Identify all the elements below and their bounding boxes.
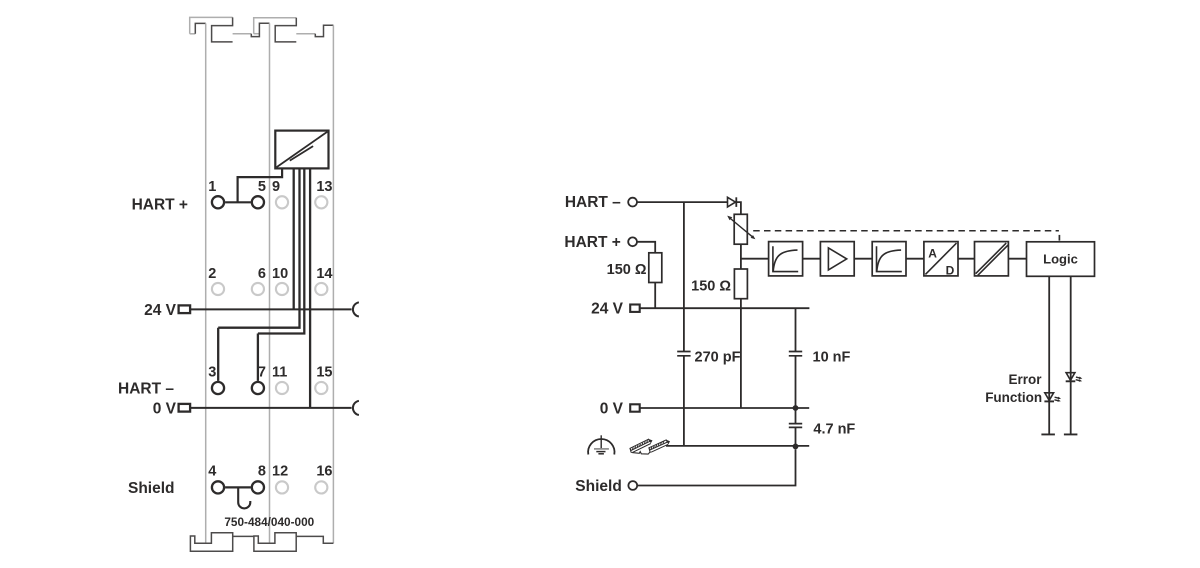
terminal 14 (unused) bbox=[315, 283, 327, 295]
svg-text:Shield: Shield bbox=[128, 480, 175, 497]
svg-text:10 nF: 10 nF bbox=[813, 349, 851, 365]
module outline: top profile tabs (gray) bbox=[190, 17, 316, 33]
connector square 0V bbox=[630, 404, 640, 411]
resistor 150 ohm (lower) bbox=[734, 269, 747, 299]
wire bbox=[803, 258, 821, 260]
terminal 2 (unused) bbox=[212, 283, 224, 295]
wire resistor to 24V rail bbox=[654, 283, 656, 309]
wire bbox=[854, 258, 872, 260]
svg-text:5: 5 bbox=[258, 179, 266, 195]
function block: A/D converter bbox=[924, 242, 958, 278]
vertical from HART- junction down to ground rail with 270 pF capacitor bbox=[683, 202, 685, 446]
svg-text:750-484/040-000: 750-484/040-000 bbox=[224, 515, 314, 529]
svg-text:4.7 nF: 4.7 nF bbox=[813, 422, 855, 438]
svg-text:15: 15 bbox=[316, 364, 332, 380]
dashed control line from burden resistor to Logic bbox=[753, 230, 1059, 232]
ground rail bbox=[666, 445, 809, 447]
terminal circle HART - bbox=[628, 198, 637, 207]
svg-text:9: 9 bbox=[272, 179, 280, 195]
svg-text:Logic: Logic bbox=[1043, 252, 1078, 267]
svg-text:12: 12 bbox=[272, 464, 288, 480]
terminal 15 (unused) bbox=[315, 382, 327, 394]
svg-text:0 V: 0 V bbox=[600, 400, 624, 417]
svg-text:14: 14 bbox=[316, 266, 332, 282]
svg-text:HART –: HART – bbox=[118, 380, 174, 397]
terminal circle Shield bbox=[628, 481, 637, 490]
svg-text:7: 7 bbox=[258, 364, 266, 380]
terminal 6 (unused) bbox=[252, 283, 264, 295]
svg-text:Function: Function bbox=[985, 390, 1042, 405]
svg-text:270 pF: 270 pF bbox=[695, 349, 741, 365]
svg-text:HART +: HART + bbox=[132, 196, 188, 213]
svg-text:Error: Error bbox=[1008, 372, 1042, 387]
terminal 3 (HART -) bbox=[212, 382, 224, 394]
terminal 9 (unused) bbox=[276, 196, 288, 208]
svg-text:150 Ω: 150 Ω bbox=[691, 279, 731, 295]
24 V feed line on module with connector square and right hook bbox=[179, 302, 359, 316]
terminal 11 (unused) bbox=[276, 382, 288, 394]
Logic box bbox=[1027, 242, 1095, 276]
terminal 7 (HART -) bbox=[252, 382, 264, 394]
svg-text:0 V: 0 V bbox=[153, 400, 177, 417]
svg-text:A: A bbox=[928, 247, 937, 261]
LED (Function, left line) bbox=[1044, 393, 1061, 402]
wire branch into first block bbox=[741, 258, 769, 260]
svg-text:Shield: Shield bbox=[575, 478, 622, 495]
DIN rail icon bbox=[630, 439, 670, 454]
terminal 1 (HART +) bbox=[212, 196, 224, 208]
resistor 150 ohm (upper) bbox=[649, 253, 662, 283]
svg-text:24 V: 24 V bbox=[591, 301, 624, 318]
capacitor 4.7 nF between 0V and ground rail bbox=[795, 408, 797, 446]
svg-text:6: 6 bbox=[258, 266, 266, 282]
svg-text:8: 8 bbox=[258, 464, 266, 480]
LED line end bars bbox=[1041, 433, 1077, 435]
svg-text:13: 13 bbox=[316, 179, 332, 195]
function block: filter 2 (curve) bbox=[872, 242, 906, 276]
function block: filter 1 (curve) bbox=[769, 242, 803, 276]
adjustable resistor (burden) bbox=[727, 214, 755, 244]
terminal 4 (Shield) bbox=[212, 481, 224, 493]
function block: amplifier bbox=[820, 242, 854, 276]
svg-text:10: 10 bbox=[272, 266, 288, 282]
LED (Error, right line) bbox=[1066, 373, 1083, 382]
svg-text:4: 4 bbox=[208, 464, 216, 480]
wire: jumper terminal 1 to 5 with riser to isolation block bbox=[225, 168, 282, 202]
terminal 13 (unused) bbox=[315, 196, 327, 208]
terminal 8 (Shield) bbox=[252, 481, 264, 493]
terminal circle HART + bbox=[628, 237, 637, 246]
diode bbox=[728, 197, 737, 207]
svg-text:11: 11 bbox=[272, 364, 287, 380]
terminal 5 (HART +) bbox=[252, 196, 264, 208]
dashed tick into logic box bbox=[1058, 235, 1060, 241]
wire shield jumper terminal 4 to 8 bbox=[225, 486, 251, 488]
terminal 10 (unused) bbox=[276, 283, 288, 295]
wire bbox=[906, 258, 924, 260]
wire shield to ground junction bbox=[637, 449, 795, 485]
24V rail bbox=[640, 307, 810, 309]
svg-text:1: 1 bbox=[208, 179, 216, 195]
svg-text:HART –: HART – bbox=[565, 194, 621, 211]
module outline: bottom profile boots (dark) bbox=[190, 533, 333, 552]
wire variable resistor to 150 ohm lower resistor bbox=[740, 244, 742, 269]
0V rail bbox=[640, 407, 810, 409]
wire isolation block to 0V rail bbox=[309, 168, 311, 408]
svg-text:150 Ω: 150 Ω bbox=[607, 262, 647, 278]
function block: isolation bbox=[975, 242, 1009, 276]
LED lines from Logic bbox=[1049, 276, 1071, 434]
terminal 16 (unused) bbox=[315, 481, 327, 493]
wire isolation block to terminal 7 bbox=[258, 168, 304, 381]
wire HART - to diode and down bbox=[637, 202, 741, 214]
svg-text:24 V: 24 V bbox=[144, 302, 177, 319]
svg-text:D: D bbox=[946, 263, 955, 277]
wire bbox=[1008, 258, 1026, 260]
wire HART + to resistor bbox=[637, 242, 655, 253]
wire isolation block to terminal 3 bbox=[218, 168, 299, 381]
shield drain stem and hook bbox=[238, 487, 250, 508]
0 V feed line on module with connector square and right hook bbox=[179, 401, 359, 415]
earth ground symbol bbox=[588, 435, 614, 454]
terminal 12 (unused) bbox=[276, 481, 288, 493]
svg-text:3: 3 bbox=[208, 364, 216, 380]
isolation transformer block on module bbox=[275, 131, 328, 169]
svg-text:2: 2 bbox=[208, 266, 216, 282]
wire lower resistor down to 0V rail bbox=[740, 299, 742, 408]
connector square 24V bbox=[630, 305, 640, 312]
wire isolation block to 24V rail bbox=[293, 168, 295, 309]
svg-text:16: 16 bbox=[316, 464, 332, 480]
capacitor 10 nF between 24V and 0V rails bbox=[795, 308, 797, 408]
junction dot 0V / 10nF bbox=[793, 405, 799, 411]
module outline: top profile notches (dark) bbox=[195, 17, 333, 42]
module outline: long vertical edges (gray) bbox=[206, 23, 334, 543]
svg-text:HART +: HART + bbox=[564, 234, 620, 251]
capacitor 270 pF plates bbox=[677, 352, 690, 356]
junction dot ground / shield bbox=[793, 444, 799, 450]
wire bbox=[958, 258, 975, 260]
